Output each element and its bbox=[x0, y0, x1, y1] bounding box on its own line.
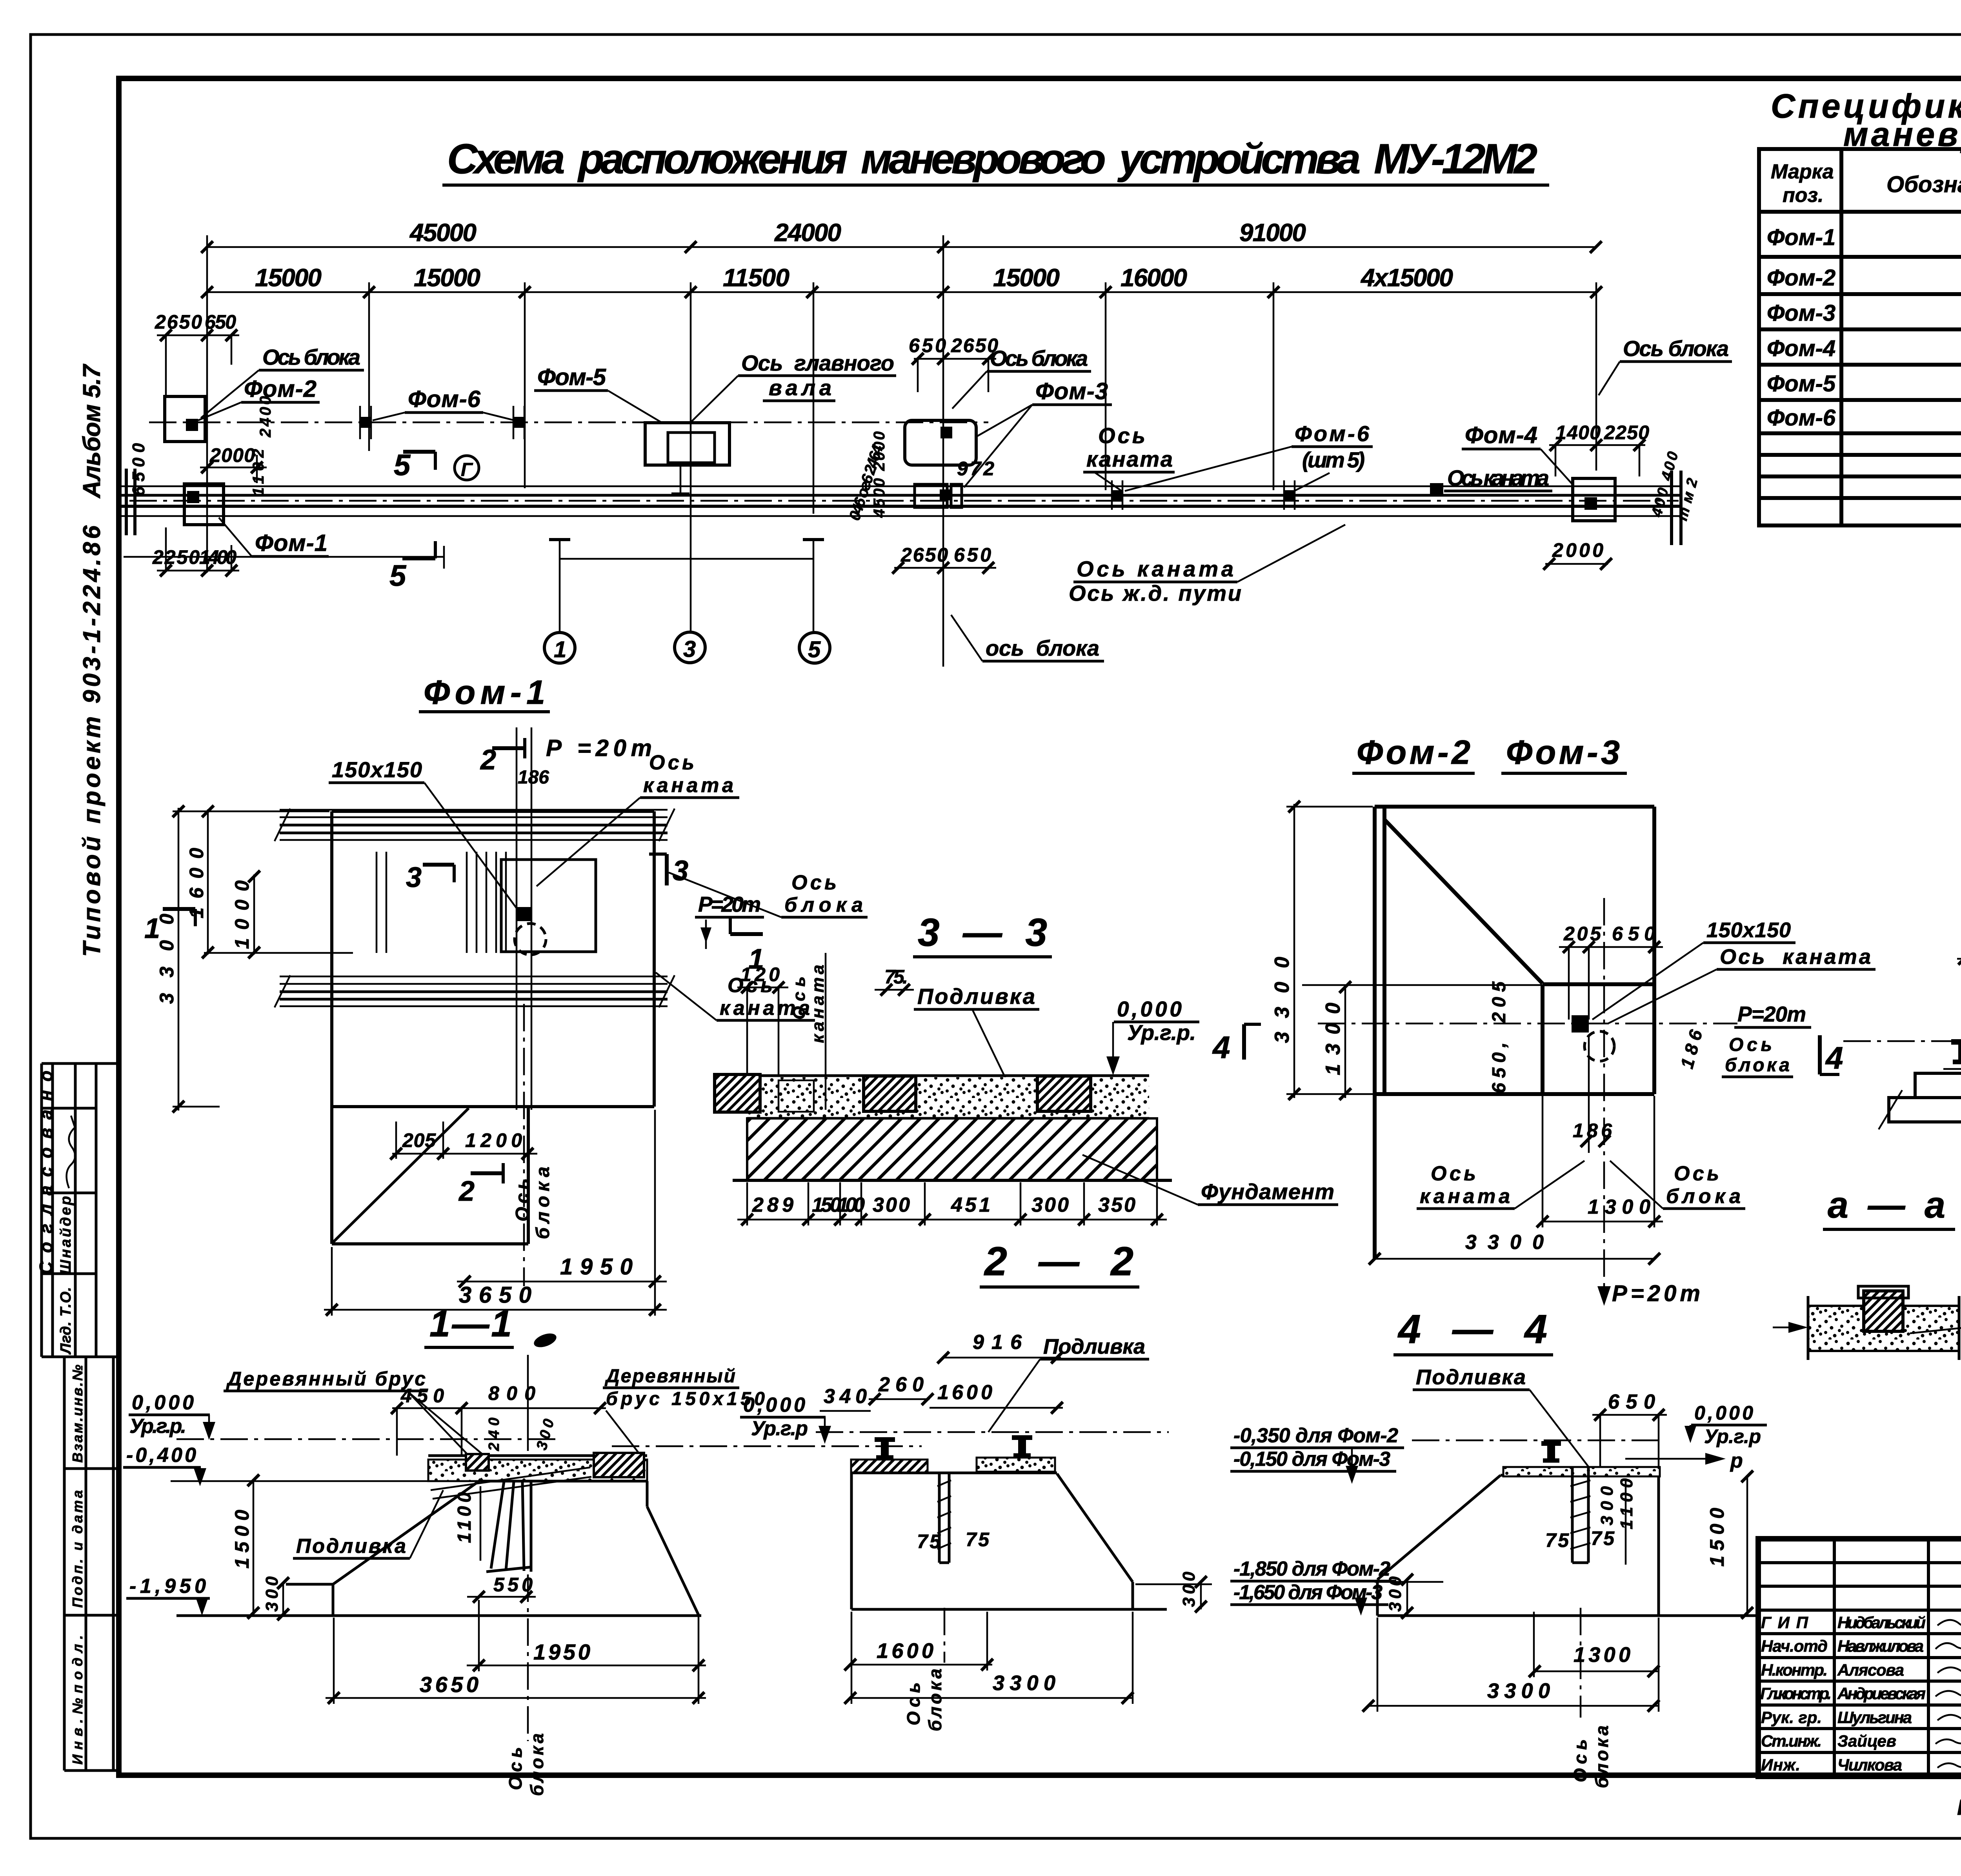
svg-text:Фом-6: Фом-6 bbox=[1295, 421, 1370, 446]
grout stipple band bbox=[747, 1077, 1149, 1118]
svg-text:Г: Г bbox=[461, 460, 473, 480]
body diagonal bbox=[333, 1108, 469, 1242]
beam lower bbox=[1889, 1098, 1961, 1122]
svg-text:Подливка: Подливка bbox=[1416, 1365, 1526, 1389]
level dashdot bbox=[816, 1431, 1169, 1433]
svg-text:451: 451 bbox=[951, 1194, 990, 1216]
top dim 205 650 bbox=[1559, 923, 1663, 1020]
svg-text:Р=20m: Р=20m bbox=[1737, 1002, 1806, 1026]
svg-text:916: 916 bbox=[973, 1331, 1022, 1354]
svg-text:150х150: 150х150 bbox=[1706, 918, 1791, 942]
svg-text:0,000: 0,000 bbox=[1117, 997, 1182, 1021]
bottom dim 3650 bbox=[324, 1110, 667, 1316]
label Fom-5 bbox=[534, 364, 662, 423]
svg-text:186: 186 bbox=[518, 767, 549, 788]
svg-text:блока: блока bbox=[527, 1733, 547, 1796]
svg-text:289: 289 bbox=[752, 1194, 793, 1216]
label Os bloka mid bbox=[952, 346, 1091, 409]
track right end bars bbox=[1672, 471, 1681, 545]
svg-text:Копировал: Копировал bbox=[1957, 1795, 1961, 1820]
stipple band bbox=[1808, 1306, 1959, 1351]
dim 300 right bbox=[1135, 1571, 1212, 1612]
left bottom dim 2250 1400 bbox=[152, 527, 239, 576]
levels between 2-2 and 4-4 bbox=[1230, 1424, 1404, 1616]
anchor square bbox=[517, 907, 531, 921]
svg-text:0,000: 0,000 bbox=[132, 1391, 194, 1414]
level dashdot 0.000 bbox=[176, 1438, 558, 1440]
rail left bbox=[875, 1437, 895, 1460]
wood block right bbox=[594, 1453, 644, 1477]
track centerline bbox=[129, 500, 1679, 502]
svg-text:Фом-5: Фом-5 bbox=[1767, 371, 1836, 396]
section flag 2 bottom bbox=[458, 1163, 503, 1207]
rotated signature squiggle bbox=[67, 1116, 75, 1188]
svg-text:205: 205 bbox=[1563, 923, 1601, 945]
svg-text:ГИП: ГИП bbox=[1761, 1613, 1808, 1632]
Fom-5 box inner bbox=[668, 433, 715, 463]
svg-text:Фом-3: Фом-3 bbox=[1506, 734, 1620, 771]
svg-text:100: 100 bbox=[837, 1194, 865, 1216]
svg-text:Ур.г.р: Ур.г.р bbox=[1704, 1425, 1761, 1447]
svg-text:Ось блока: Ось блока bbox=[990, 346, 1088, 371]
end bars bbox=[1808, 1296, 1959, 1360]
svg-text:Зайцев: Зайцев bbox=[1837, 1732, 1896, 1750]
small insert block bbox=[779, 1080, 814, 1112]
svg-text:300: 300 bbox=[873, 1194, 910, 1216]
svg-text:15000: 15000 bbox=[255, 264, 322, 292]
svg-text:3—3: 3—3 bbox=[918, 911, 1047, 954]
bottom dim 1950 bbox=[457, 1254, 667, 1287]
detail a-a bbox=[1773, 1184, 1961, 1414]
section flag 2 top bbox=[480, 738, 525, 776]
dim 650 2650 top bbox=[909, 334, 998, 392]
pad left hatched bbox=[851, 1460, 928, 1473]
bottom line bbox=[176, 1614, 701, 1617]
dim 340 bbox=[820, 1385, 871, 1411]
Fom-6 square B bbox=[513, 406, 524, 439]
svg-text:4x15000: 4x15000 bbox=[1360, 264, 1453, 292]
svg-text:150х150: 150х150 bbox=[332, 757, 422, 782]
label Fom-6 left bbox=[373, 386, 515, 420]
level -0.350/-0.150 bbox=[1230, 1424, 1404, 1484]
dims 75 75 bbox=[917, 1529, 990, 1552]
beam upper bbox=[1915, 1073, 1961, 1098]
svg-text:Чилкова: Чилкова bbox=[1837, 1756, 1902, 1774]
svg-text:Схема расположения маневрово: Схема расположения маневрового устройств… bbox=[447, 135, 1537, 182]
timber pile bbox=[486, 1482, 532, 1572]
svg-text:0,000: 0,000 bbox=[1694, 1402, 1753, 1424]
svg-text:350: 350 bbox=[1098, 1194, 1135, 1216]
section 4-4 lower bbox=[1363, 1365, 1767, 1788]
svg-text:Ур.г.р: Ур.г.р bbox=[751, 1417, 808, 1440]
label P=20t bbox=[1734, 1002, 1811, 1027]
svg-text:Шнайдер: Шнайдер bbox=[58, 1196, 74, 1274]
grillage ladder verticals bbox=[377, 852, 506, 953]
label Fom-6 sht5 bbox=[1125, 421, 1373, 491]
svg-text:972: 972 bbox=[957, 458, 994, 480]
ink blob bbox=[532, 1331, 558, 1350]
left dim 2000 bbox=[200, 444, 267, 483]
bottom dim 1600 bbox=[844, 1612, 993, 1704]
left dim 1600 bbox=[186, 805, 214, 958]
svg-text:Фом-4: Фом-4 bbox=[1767, 336, 1835, 361]
label podlivka 4-4 bbox=[1413, 1365, 1588, 1467]
axis connector line bbox=[549, 540, 824, 633]
label Os kanata top right bbox=[537, 751, 739, 886]
dim 260 bbox=[869, 1373, 933, 1405]
svg-text:5: 5 bbox=[389, 559, 407, 593]
svg-text:Ст.инж.: Ст.инж. bbox=[1761, 1732, 1822, 1750]
dim 1500 right rotated bbox=[1706, 1471, 1753, 1619]
top plan: dimension line row 1 bbox=[122, 218, 1732, 667]
level dashdot right bbox=[612, 1445, 922, 1447]
section flag 1 left bbox=[144, 909, 195, 944]
svg-text:Ось: Ось bbox=[649, 751, 694, 774]
svg-text:1: 1 bbox=[554, 637, 566, 662]
Fom-6 track square C bbox=[1112, 480, 1122, 510]
anchor bolt bbox=[939, 1473, 949, 1563]
dim 1520 bbox=[1957, 929, 1961, 1043]
label Os kanata right bbox=[1444, 465, 1552, 491]
svg-text:Ось: Ось bbox=[1431, 1162, 1476, 1185]
svg-text:Фом-3: Фом-3 bbox=[1767, 300, 1835, 326]
svg-text:Рук. гр.: Рук. гр. bbox=[1761, 1708, 1822, 1727]
svg-text:блока: блока bbox=[1666, 1185, 1741, 1208]
dim 2650 650 bottom bbox=[892, 544, 996, 574]
label Os blока left bbox=[201, 345, 364, 418]
svg-text:Обозначение: Обозначение bbox=[1886, 172, 1961, 197]
pad right stippled bbox=[977, 1458, 1055, 1472]
rail right bbox=[1012, 1435, 1032, 1458]
svg-text:(шт 5): (шт 5) bbox=[1302, 447, 1365, 472]
dim 550 bbox=[467, 1574, 536, 1603]
svg-text:Фом-3: Фом-3 bbox=[1035, 378, 1108, 404]
svg-text:300: 300 bbox=[262, 1576, 282, 1612]
section 5-5 bbox=[1843, 867, 1961, 1322]
svg-text:Фом-1: Фом-1 bbox=[1767, 225, 1835, 250]
svg-text:650: 650 bbox=[1612, 923, 1655, 945]
svg-text:205: 205 bbox=[1489, 981, 1510, 1023]
left top dim 2650 650 bbox=[155, 311, 239, 395]
svg-text:Альбом 5.7: Альбом 5.7 bbox=[78, 364, 106, 499]
svg-text:15000: 15000 bbox=[993, 264, 1060, 292]
label Os bloka bottom right bbox=[1610, 1161, 1745, 1209]
wood block with plate bbox=[1864, 1291, 1903, 1331]
svg-text:Согласовано: Согласовано bbox=[36, 1071, 56, 1274]
section 2-2 lower bbox=[816, 1331, 1212, 1731]
svg-text:Фундамент: Фундамент bbox=[1201, 1179, 1334, 1204]
left dim 1000 bbox=[231, 871, 260, 958]
label Os kanata lower right bbox=[656, 973, 815, 1020]
rail small 4-4 bbox=[1541, 1441, 1561, 1463]
Fom-1 detail bbox=[144, 674, 868, 1316]
Fom-5 box outer bbox=[645, 423, 729, 465]
svg-text:Ось каната: Ось каната bbox=[1447, 465, 1549, 490]
svg-text:1—1: 1—1 bbox=[429, 1303, 512, 1345]
svg-text:ось блока: ось блока bbox=[986, 636, 1099, 660]
svg-text:4—4: 4—4 bbox=[1397, 1307, 1547, 1352]
svg-text:Фом-6: Фом-6 bbox=[1767, 405, 1836, 431]
svg-text:150: 150 bbox=[812, 1194, 841, 1216]
svg-text:Алясова: Алясова bbox=[1837, 1661, 1904, 1679]
wood block left bbox=[466, 1454, 489, 1471]
square outline bbox=[1375, 807, 1654, 1259]
svg-text:120: 120 bbox=[740, 963, 780, 985]
svg-text:Ось: Ось bbox=[512, 1178, 533, 1222]
section flag 5 lower bbox=[389, 541, 435, 593]
svg-text:Ось: Ось bbox=[1729, 1034, 1772, 1055]
svg-text:650: 650 bbox=[909, 334, 946, 356]
level dashdot 4-4 bbox=[1412, 1440, 1663, 1442]
main shaft centerline bbox=[149, 422, 988, 424]
svg-text:Деревянный: Деревянный bbox=[604, 1366, 735, 1387]
Fom-2 box bbox=[165, 396, 205, 442]
arrow left bbox=[1788, 1322, 1808, 1333]
dim 186 bottom bbox=[1573, 1035, 1612, 1153]
left dim 3300 bbox=[156, 805, 184, 1113]
station verticals bbox=[207, 235, 1596, 667]
svg-text:Фом-4: Фом-4 bbox=[1465, 422, 1537, 448]
Fom-1 anchor square bbox=[187, 491, 199, 503]
title block main frame bbox=[1758, 1539, 1961, 1776]
chamfer diagonal bbox=[1384, 820, 1543, 983]
anchor square bbox=[1572, 1015, 1589, 1033]
left margin album label bbox=[36, 364, 119, 1771]
svg-text:45000: 45000 bbox=[409, 218, 477, 247]
svg-text:брус 150х150: брус 150х150 bbox=[606, 1389, 765, 1409]
svg-text:Типовой проект 903-1-224.86: Типовой проект 903-1-224.86 bbox=[78, 525, 106, 957]
label Os kanata / os zhd puti bbox=[1069, 525, 1345, 605]
svg-text:Фом-2: Фом-2 bbox=[1767, 265, 1835, 291]
svg-text:Ур.г.р.: Ур.г.р. bbox=[129, 1415, 186, 1438]
svg-text:-0,150 для Фом-3: -0,150 для Фом-3 bbox=[1233, 1448, 1390, 1471]
svg-text:Ось блока: Ось блока bbox=[262, 345, 360, 369]
left dim extension lines bbox=[173, 811, 353, 1107]
dim 2000 bottom right bbox=[1543, 539, 1612, 570]
left dim 1300 bbox=[1302, 981, 1541, 1100]
svg-text:Ось блока: Ось блока bbox=[1623, 336, 1729, 361]
foundation body outline bbox=[332, 811, 654, 1244]
left dim 3300 bbox=[1271, 801, 1373, 1100]
dim 1500 rotated bbox=[231, 1474, 259, 1619]
label 150x150 bbox=[1592, 918, 1795, 1020]
svg-text:-0,400: -0,400 bbox=[126, 1444, 196, 1467]
svg-text:Марка: Марка bbox=[1771, 160, 1834, 183]
axis os bloka vertical bbox=[527, 1355, 529, 1451]
svg-text:Фом-2: Фом-2 bbox=[244, 376, 317, 402]
svg-text:Ось каната: Ось каната bbox=[1077, 556, 1233, 581]
svg-text:поз.: поз. bbox=[1783, 184, 1824, 207]
leader to note text bbox=[1910, 1322, 1961, 1333]
svg-text:91000: 91000 bbox=[1239, 218, 1306, 247]
axis circle 5 bbox=[799, 633, 830, 663]
label Fom-4 bbox=[1462, 422, 1574, 485]
section flag 3 top bbox=[406, 862, 454, 893]
svg-text:3: 3 bbox=[406, 862, 422, 893]
svg-text:Ось: Ось bbox=[791, 871, 837, 894]
svg-text:Ось: Ось bbox=[1674, 1162, 1719, 1185]
level -0.400 bbox=[123, 1444, 206, 1486]
signature grid bbox=[1758, 1539, 1961, 1776]
body 2-2 bbox=[851, 1473, 1167, 1609]
Fom-6 square A bbox=[360, 406, 371, 439]
center dashdot vertical bbox=[523, 1004, 525, 1286]
level mark 0.000 bbox=[1106, 997, 1199, 1075]
step dim 300 left bbox=[1375, 1574, 1443, 1619]
rope axis vertical in 3-3 bbox=[825, 953, 827, 1110]
svg-text:300: 300 bbox=[1179, 1571, 1199, 1607]
axis circle 3 bbox=[675, 632, 705, 663]
section flag 4 right bbox=[1212, 1024, 1261, 1065]
label podlivka 2-2 bbox=[988, 1335, 1149, 1432]
level 0.000 left bbox=[129, 1391, 215, 1440]
bottom load P=20t bbox=[1597, 1281, 1700, 1306]
label Fom-3 bbox=[964, 378, 1112, 487]
Fom-3 lower boxes bbox=[915, 484, 947, 507]
Fom-3 anchor square bbox=[940, 427, 952, 438]
rail band A bbox=[280, 810, 668, 840]
svg-text:Фом-6: Фом-6 bbox=[408, 386, 481, 412]
specification table title bbox=[1771, 87, 1961, 153]
bottom dim 3300 bbox=[844, 1612, 1133, 1704]
Fom-1 box bbox=[184, 484, 224, 525]
dim 1950 bottom bbox=[467, 1600, 706, 1671]
rail band A end hatches bbox=[275, 809, 675, 841]
dims 75 75 4-4 bbox=[1545, 1527, 1615, 1551]
wood block 3 bbox=[1037, 1076, 1091, 1111]
Fom-3 upper box bbox=[905, 420, 976, 465]
svg-text:0,000: 0,000 bbox=[743, 1394, 805, 1416]
section flag 1 lower right bbox=[730, 917, 764, 975]
Fom-5 stub bbox=[671, 465, 689, 493]
Fom-4 anchor square bbox=[1584, 497, 1597, 510]
label Os kanata mid bbox=[1083, 423, 1175, 491]
G circle mark bbox=[455, 456, 479, 480]
svg-text:650: 650 bbox=[954, 544, 991, 566]
level 0.000 right bbox=[1684, 1402, 1767, 1447]
bottom dim 1300 bbox=[1537, 1096, 1663, 1227]
lower service line bbox=[124, 546, 444, 569]
beam break marks bbox=[1879, 1090, 1961, 1129]
svg-text:Ось главного: Ось главного bbox=[741, 351, 894, 375]
wood block 1 bbox=[715, 1074, 760, 1112]
svg-text:75.: 75. bbox=[884, 966, 908, 988]
signature names bbox=[1837, 1613, 1926, 1774]
rail pads bbox=[1943, 1068, 1961, 1070]
svg-text:-1,850 для Фом-2: -1,850 для Фом-2 bbox=[1233, 1558, 1390, 1580]
svg-text:340: 340 bbox=[824, 1385, 867, 1408]
dim 650 bbox=[1592, 1391, 1667, 1472]
label Os kanata bottom left bbox=[1417, 1161, 1584, 1209]
track band rail lines bbox=[122, 486, 1681, 516]
svg-text:4: 4 bbox=[1825, 1040, 1843, 1075]
bottom dim 1300 bbox=[1529, 1612, 1659, 1677]
svg-text:260: 260 bbox=[878, 1373, 924, 1396]
rope axis verticals bbox=[517, 727, 531, 1110]
svg-text:Деревянный брус: Деревянный брус bbox=[226, 1368, 426, 1390]
svg-text:3: 3 bbox=[683, 636, 696, 662]
svg-text:15000: 15000 bbox=[414, 264, 480, 292]
svg-text:Фом-2: Фом-2 bbox=[1357, 734, 1470, 771]
svg-text:Нидбальский: Нидбальский bbox=[1837, 1613, 1926, 1632]
arrow p right bbox=[1625, 1449, 1743, 1472]
label 150x150 bbox=[329, 757, 518, 910]
surface level -0.400 line bbox=[171, 1480, 428, 1482]
svg-text:Ось: Ось bbox=[789, 976, 809, 1020]
section 3-3 bbox=[715, 911, 1338, 1287]
label Os bloka + flag 4 bbox=[1722, 1034, 1843, 1077]
level 0.000 right bbox=[740, 1394, 831, 1444]
svg-text:2: 2 bbox=[458, 1176, 475, 1207]
dims 450 800 bbox=[391, 1382, 606, 1456]
svg-text:Взам.инв.№: Взам.инв.№ bbox=[69, 1365, 85, 1463]
track left end bars bbox=[126, 469, 135, 535]
svg-text:Ось: Ось bbox=[1098, 423, 1145, 448]
label Fom-2 bbox=[198, 376, 320, 420]
svg-text:блока: блока bbox=[1725, 1055, 1790, 1076]
dim 1400 2250 bbox=[1549, 422, 1649, 476]
band wedge lines bbox=[431, 1467, 591, 1499]
svg-text:550: 550 bbox=[493, 1574, 533, 1596]
svg-text:Фом-1: Фом-1 bbox=[255, 530, 327, 556]
rope axis square right bbox=[1430, 483, 1443, 496]
grout band 4-4 bbox=[1503, 1467, 1660, 1476]
svg-text:-0,350 для Фом-2: -0,350 для Фом-2 bbox=[1233, 1424, 1398, 1447]
excavation profile bbox=[286, 1479, 699, 1616]
label derevyanny brus 150x150 bbox=[603, 1366, 765, 1454]
body 4-4 (mirror) bbox=[1377, 1474, 1761, 1616]
svg-text:р: р bbox=[1730, 1449, 1743, 1472]
svg-text:240: 240 bbox=[486, 1418, 502, 1451]
svg-text:Н.контр.: Н.контр. bbox=[1761, 1661, 1828, 1679]
label derevyanny brus bbox=[224, 1368, 490, 1461]
label P=20t right bbox=[695, 892, 764, 949]
specification table bbox=[1759, 149, 1961, 525]
svg-text:Ось: Ось bbox=[903, 1682, 924, 1725]
ground top line bbox=[733, 1074, 1149, 1077]
mid dims 205 1200 bbox=[390, 1122, 537, 1160]
svg-text:Фом-5: Фом-5 bbox=[537, 364, 607, 390]
svg-text:Шульгина: Шульгина bbox=[1837, 1708, 1912, 1727]
svg-text:300: 300 bbox=[1031, 1194, 1069, 1216]
svg-text:Подливка: Подливка bbox=[1043, 1335, 1145, 1358]
main drawing title bbox=[442, 135, 1549, 185]
svg-text:Гл.констр.: Гл.констр. bbox=[1760, 1684, 1832, 1703]
left margin approval table bbox=[42, 1063, 119, 1357]
label Os bloka top right bbox=[1599, 336, 1732, 395]
axis circle 1 bbox=[544, 633, 575, 663]
foundation hatch body bbox=[747, 1118, 1157, 1180]
svg-text:a — a: a — a bbox=[1828, 1184, 1945, 1226]
center dashdot horizontal bbox=[1318, 1023, 1737, 1025]
label podlivka bbox=[293, 1490, 443, 1558]
svg-text:Ось каната: Ось каната bbox=[1720, 945, 1871, 969]
svg-text:11500: 11500 bbox=[723, 264, 789, 292]
svg-text:650: 650 bbox=[1608, 1391, 1655, 1413]
dim ticks row1 bbox=[201, 241, 1602, 253]
svg-text:Инж.: Инж. bbox=[1761, 1756, 1800, 1774]
dim 916 bbox=[937, 1331, 1063, 1363]
svg-text:3: 3 bbox=[673, 855, 688, 887]
dim 1600 top bbox=[930, 1381, 1063, 1414]
svg-text:4: 4 bbox=[1212, 1030, 1230, 1065]
label Podlivka bbox=[914, 984, 1039, 1079]
label os bloka bottom bbox=[951, 615, 1104, 661]
label Os kanata bbox=[1608, 945, 1876, 1023]
label Os glavnogo vala bbox=[691, 351, 896, 422]
svg-text:-1,950: -1,950 bbox=[129, 1575, 206, 1598]
bottom dim 3300 bbox=[1369, 1231, 1660, 1265]
